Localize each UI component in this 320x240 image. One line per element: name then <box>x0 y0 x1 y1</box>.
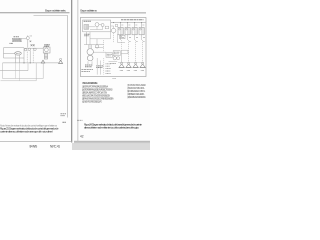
left caption faint line <box>0 123 58 127</box>
loop vertical x36 <box>35 63 37 81</box>
generator hatch label <box>85 65 92 67</box>
connector circle P3 <box>34 48 36 50</box>
motor M in J2 <box>45 48 49 52</box>
junction dot 1 <box>23 62 24 63</box>
svg-text:(6) CALENTADORES DEL EQUIPO: (6) CALENTADORES DEL EQUIPO <box>82 101 102 104</box>
legend left item 6 <box>82 101 102 104</box>
right page left edge <box>76 0 79 142</box>
wire x117.5 <box>117 34 119 43</box>
connector circle P1 <box>24 49 26 51</box>
small box in U1 <box>105 26 108 29</box>
label box upper <box>113 51 120 56</box>
svg-text:(7) CONTACTOR AUXILIAR: (7) CONTACTOR AUXILIAR <box>127 84 146 87</box>
switch S1 marks <box>30 41 32 43</box>
ground G1 <box>41 60 45 63</box>
label below J1 <box>10 42 14 44</box>
svg-text:(5) TRANSFORMADORES DE CORRIE: (5) TRANSFORMADORES DE CORRIENTE DE MEDI… <box>82 98 114 101</box>
wire vertical v3 <box>29 50 31 62</box>
frame bottom continuation mark <box>113 77 117 79</box>
wire U1 to bus <box>110 22 112 24</box>
label box left of RL1 <box>115 24 117 26</box>
top bus wire <box>111 22 146 24</box>
margin note <box>61 114 67 116</box>
wires in U1 <box>89 25 103 30</box>
wires above G <box>89 45 92 49</box>
motor circle M1 <box>111 28 116 33</box>
svg-text:Esquema del sistema: Esquema del sistema <box>80 8 97 12</box>
wire vertical v2 <box>26 50 28 62</box>
bus junction dots <box>113 22 142 23</box>
lead labels row2 <box>129 40 145 42</box>
left header rule <box>0 12 70 14</box>
right caption line 2 <box>84 126 139 130</box>
loop wire y78.5 <box>3 78 44 80</box>
left schematic: label above connector J1 <box>14 36 20 38</box>
relay RL4 <box>139 27 144 34</box>
wires from U1 bottom <box>87 32 98 48</box>
wire J1 to B1 <box>22 38 26 40</box>
sensor line left <box>109 61 118 63</box>
generator circle G top <box>87 49 93 55</box>
heater H3 symbol <box>133 62 139 70</box>
right header rule <box>80 12 146 14</box>
wire y44.6 <box>84 44 104 46</box>
relay RL1 <box>118 27 123 34</box>
loop vertical x2.5 <box>2 63 4 79</box>
svg-text:(10) TABLERO DE FUERZA: (10) TABLERO DE FUERZA <box>127 93 144 96</box>
lead labels <box>122 37 145 39</box>
main bus <box>3 62 60 64</box>
sensor circle right <box>113 57 116 60</box>
legend right item 2 <box>127 87 145 90</box>
wire into F1 <box>4 52 15 54</box>
left footer rule <box>0 141 72 143</box>
lower left text block <box>81 70 93 72</box>
wire U1 to M1 <box>111 26 114 28</box>
small circle sensor <box>95 45 98 48</box>
legend right item 3 <box>127 91 146 93</box>
generator circle G bottom <box>87 55 93 61</box>
left schematic frame top edge <box>34 15 68 17</box>
caption lead mark <box>77 119 83 121</box>
svg-text:(8) BARRA PRINCIPAL: (8) BARRA PRINCIPAL <box>127 87 145 90</box>
fuse leads down <box>16 55 20 63</box>
legend right item 5 <box>127 96 146 99</box>
svg-text:(11) TERMINALES DE TIERRA: (11) TERMINALES DE TIERRA <box>127 96 146 99</box>
left caption line 1 <box>0 126 59 130</box>
wire below U1 <box>90 32 111 39</box>
svg-text:(3) RELE AUXILIAR DE CONTROL: (3) RELE AUXILIAR DE CONTROL AUTOM <box>82 92 107 95</box>
label above connector J2 <box>44 45 49 47</box>
heater H1 symbol <box>119 62 125 70</box>
U1 label <box>84 20 91 22</box>
wire G to TB <box>93 51 106 53</box>
connector J1 (hatched block) <box>12 39 22 41</box>
svg-text:alterna del sistema de enfriam: alterna del sistema de enfriamiento y de… <box>84 126 139 130</box>
lower mid verticals <box>97 58 104 75</box>
connector CN1 hatched <box>84 25 89 30</box>
connector circle P2 <box>28 48 30 50</box>
wire y42.5 <box>118 42 126 44</box>
switch box SW <box>120 35 125 38</box>
relay leads with labels <box>121 35 142 40</box>
wire bus A <box>4 47 25 49</box>
svg-text:N.P.C. 41: N.P.C. 41 <box>50 144 60 148</box>
schematic frame <box>80 18 146 77</box>
lower mid label column <box>106 64 111 74</box>
heater feed line <box>118 62 144 64</box>
loop vertical x43 <box>42 63 44 79</box>
svg-text:(4) REGULADOR AUTOM DE TENSIO: (4) REGULADOR AUTOM DE TENSION DEL GEN <box>82 95 110 98</box>
U1 bottom label hatched <box>84 34 90 36</box>
label box TB <box>106 53 113 57</box>
right page bottom shadow <box>74 140 150 143</box>
svg-text:42: 42 <box>80 134 84 138</box>
stem above B1 <box>27 35 29 36</box>
right header title <box>80 8 97 12</box>
connector J2 box <box>43 47 50 53</box>
svg-text:(9) FUSIBLES DE CONTROL: (9) FUSIBLES DE CONTROL <box>127 91 146 93</box>
left footer marks A <box>30 144 38 148</box>
wire from B1 down <box>27 40 29 48</box>
relay K1 contacts <box>31 44 35 46</box>
svg-text:(1) INTERRUPTOR PRINCIPAL DEL: (1) INTERRUPTOR PRINCIPAL DEL SISTEMA <box>82 86 108 89</box>
wire y47.5 <box>95 47 104 49</box>
lamp B1 circle <box>26 37 29 40</box>
hatch label 2 <box>96 66 103 68</box>
junction dot 2 <box>30 62 31 63</box>
legend right item 4 <box>127 93 144 96</box>
svg-text:84 N/S: 84 N/S <box>30 144 38 148</box>
sensor hatch label <box>110 63 116 65</box>
svg-text:PRECAUCIONES PARTE 1: PRECAUCIONES PARTE 1 <box>82 81 98 85</box>
wire vertical left margin <box>3 48 5 58</box>
wire vertical v4 <box>32 48 34 63</box>
left caption line 2 <box>0 130 53 134</box>
legend left item 4 <box>82 95 110 98</box>
fuse F1 capsule <box>15 52 22 55</box>
relay drop to box <box>121 40 123 50</box>
left footer marks B <box>50 144 60 148</box>
wire top line <box>24 47 43 49</box>
heater H4 symbol <box>140 62 146 70</box>
label right of B1 stem <box>30 35 32 37</box>
svg-text:(2) MOTOR DE ARRANQUE DEL GRU: (2) MOTOR DE ARRANQUE DEL GRUPO ELECTROG… <box>82 89 113 92</box>
legend left item 5 <box>82 98 114 101</box>
heater H2 symbol <box>126 62 132 70</box>
legend left item 3 <box>82 92 107 95</box>
loop wire y80.8 <box>1 80 37 82</box>
legend left item 2 <box>82 89 113 92</box>
page background <box>0 0 150 150</box>
label box upper2 <box>121 50 128 54</box>
left schematic frame right edge <box>67 16 69 118</box>
verticals to heaters <box>115 40 143 62</box>
wire M1 down <box>113 33 115 43</box>
relay coil circle K2 <box>95 23 99 27</box>
loop vertical x20 <box>19 63 21 81</box>
frame label top right <box>121 19 144 21</box>
wire y58 <box>4 57 25 59</box>
loop wire y70 <box>0 70 28 72</box>
bus drop labels <box>122 24 145 26</box>
ground G2 <box>58 60 63 63</box>
desk background bottom right <box>72 143 150 150</box>
right page number <box>80 134 84 138</box>
sensor circle right 2 <box>117 57 120 60</box>
lamp above ground G2 <box>60 58 62 60</box>
dashed vertical x103.5 <box>103 40 105 52</box>
svg-text:Esquema del sistema elec: Esquema del sistema elec <box>45 8 67 12</box>
relay RL3 <box>132 27 137 34</box>
legend header <box>82 81 98 85</box>
loop vertical x28 <box>27 63 29 71</box>
relay coil circle K3 <box>101 24 104 27</box>
left header title <box>45 8 67 12</box>
margin note 2 <box>63 121 67 123</box>
right caption line 1 <box>84 123 142 127</box>
left page right edge <box>71 0 72 143</box>
drop wires to relays <box>121 23 142 28</box>
legend left item 1 <box>82 86 108 89</box>
wire vertical v1 <box>23 48 25 63</box>
heater R1 element <box>44 54 47 59</box>
svg-text:corriente alterna y del sistem: corriente alterna y del sistema de arran… <box>0 130 53 134</box>
loop vertical x14 <box>15 63 17 79</box>
relay RL2 <box>125 27 130 34</box>
legend right item 1 <box>127 84 146 87</box>
gen leads down <box>88 61 92 64</box>
control module box U1 <box>83 20 111 32</box>
